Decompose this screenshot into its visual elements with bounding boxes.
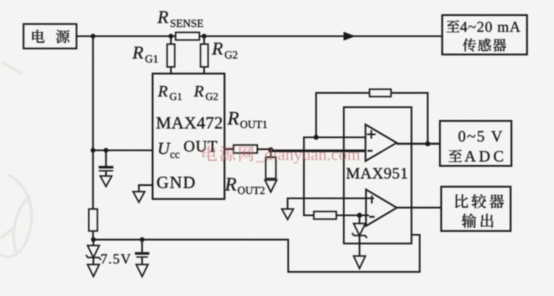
node: reference junction xyxy=(357,213,362,218)
pin label OUT xyxy=(184,141,217,152)
pin label Ucc xyxy=(159,143,171,154)
output box 至4~20mA 传感器 xyxy=(442,15,527,54)
wire: + input down-link to comparator resistor xyxy=(304,137,366,215)
resistor RG1 external xyxy=(132,36,174,73)
wire: power box to junction xyxy=(77,35,94,37)
op-amp A2 comparator xyxy=(366,190,397,227)
output box 比较器输出 xyxy=(441,187,510,231)
node: R_SENSE left tap xyxy=(169,34,174,39)
wire: top rail to sensor box xyxy=(93,35,442,37)
power source box 电源 xyxy=(24,24,77,49)
wire: bottom negative rail xyxy=(93,235,419,272)
wire: A1 output xyxy=(397,143,440,145)
part name MAX472 xyxy=(156,117,222,128)
wire: junction to inverting input xyxy=(271,150,366,153)
ground: comparator + input xyxy=(282,209,294,220)
watermark: red site text xyxy=(203,146,360,164)
wire: resistor to - input xyxy=(336,214,369,216)
resistor R4 comparator input xyxy=(314,212,337,220)
pin label GND xyxy=(157,177,195,188)
resistor R_SENSE xyxy=(157,11,203,40)
resistor RG2 external xyxy=(201,36,238,73)
capacitor C2 filter xyxy=(135,240,149,265)
wire: ROUT1 to junction xyxy=(257,148,271,150)
wire: comparator output xyxy=(397,207,441,209)
wire: comparator + input to ground xyxy=(288,198,374,209)
wire: GND pin to ground xyxy=(139,185,153,192)
ground: ROUT2 xyxy=(265,180,277,192)
resistor ROUT2 xyxy=(225,150,276,194)
wire: left rail down xyxy=(92,36,94,209)
node: power branch junction xyxy=(91,34,96,39)
node: bypass cap tap xyxy=(104,148,109,153)
output box 0~5V 至ADC xyxy=(440,121,512,166)
node: Ucc tap xyxy=(91,148,96,153)
wire: feedback loop xyxy=(316,93,428,144)
capacitor C1 Ucc bypass xyxy=(99,150,114,176)
node: bottom cap tap xyxy=(140,237,145,242)
resistor ROUT1 xyxy=(227,112,267,153)
current direction arrow on top rail xyxy=(344,32,356,41)
node: R_SENSE right tap xyxy=(202,34,207,39)
label 7.5V xyxy=(101,254,130,263)
op-amp IC U1 MAX472 box xyxy=(153,74,225,199)
node: ROUT divider junction xyxy=(268,147,273,152)
pin label RG2 xyxy=(194,86,204,97)
zener diode D1 7.5V xyxy=(86,240,101,265)
node: feedback tap xyxy=(314,135,319,140)
ground: bottom cap xyxy=(136,265,148,277)
ground: MAX472 GND xyxy=(133,192,145,203)
wire: to zener node xyxy=(92,231,94,240)
node: 7.5V zener node xyxy=(91,237,96,242)
op-amp IC U2 MAX951 box xyxy=(344,107,412,243)
op-amp A1 amplifier xyxy=(366,125,397,162)
wire: Ucc pin wire xyxy=(93,149,153,151)
pin label RG1 xyxy=(158,86,168,97)
ground: 7.5V zener xyxy=(88,265,100,277)
node: feedback junction on output xyxy=(425,141,430,146)
ground: reference zener xyxy=(354,256,366,269)
wire: OUT pin xyxy=(225,148,234,150)
resistor R3 left rail xyxy=(89,209,98,231)
watermark: faint logo arc bottom-left xyxy=(0,62,32,257)
resistor RF feedback xyxy=(370,89,392,96)
zener diode D2 internal reference xyxy=(352,215,367,256)
ground: bypass cap xyxy=(100,176,112,187)
